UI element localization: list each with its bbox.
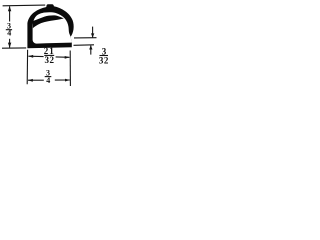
seal profile body (P-shaped extrusion cross-section, solid black) — [27, 4, 73, 48]
left vertical extension line (width datum left) — [26, 50, 28, 85]
label 3/4 (overall width dimension) — [46, 68, 50, 85]
right vertical extension line (width datum right) — [69, 51, 71, 87]
arrowhead left (21/32 dim) — [28, 55, 33, 58]
fraction bar of 3/32 label — [100, 55, 109, 57]
svg-text:4: 4 — [46, 76, 50, 85]
3/32 dimension lower stem — [90, 46, 92, 55]
interior cavity of bulb (white) — [33, 12, 72, 43]
height dimension stem upper — [9, 6, 11, 21]
bottom-left extension line (profile bottom plane) — [2, 47, 26, 49]
svg-text:32: 32 — [99, 55, 109, 65]
21/32 dimension line left segment — [28, 55, 43, 57]
arrowhead right (3/4 width dim) — [65, 79, 70, 82]
arrowhead down (height dim bottom) — [8, 43, 11, 48]
height dimension stem lower — [9, 39, 11, 48]
label 3/4 (height dimension) — [7, 21, 11, 37]
3/4 width dimension line left segment — [28, 79, 44, 81]
arrowhead down (3/32 dim top) — [91, 33, 94, 37]
arrowhead right (21/32 dim) — [65, 56, 70, 59]
fraction bar of 21/32 label — [44, 54, 54, 56]
21/32 dimension line right segment — [56, 56, 70, 58]
svg-text:4: 4 — [7, 29, 11, 38]
fraction bar of left 3/4 label — [6, 29, 12, 31]
label 21/32 (inner width dimension) — [44, 46, 55, 65]
right extension line at tail tip level — [74, 37, 97, 39]
label 3/32 (gap dimension) — [99, 47, 109, 66]
arrowhead left (3/4 width dim) — [28, 79, 33, 82]
fraction bar of bottom 3/4 label — [45, 76, 52, 78]
top extension line (profile top plane) — [3, 4, 46, 7]
arrowhead up (height dim top) — [8, 6, 11, 11]
inner flap fin inside bulb — [33, 15, 64, 28]
3/32 dimension upper stem — [92, 27, 94, 38]
right extension line at base level — [74, 44, 95, 47]
arrowhead up (3/32 dim bottom) — [89, 45, 92, 49]
svg-text:32: 32 — [45, 55, 55, 65]
3/4 width dimension line right segment — [55, 79, 70, 81]
